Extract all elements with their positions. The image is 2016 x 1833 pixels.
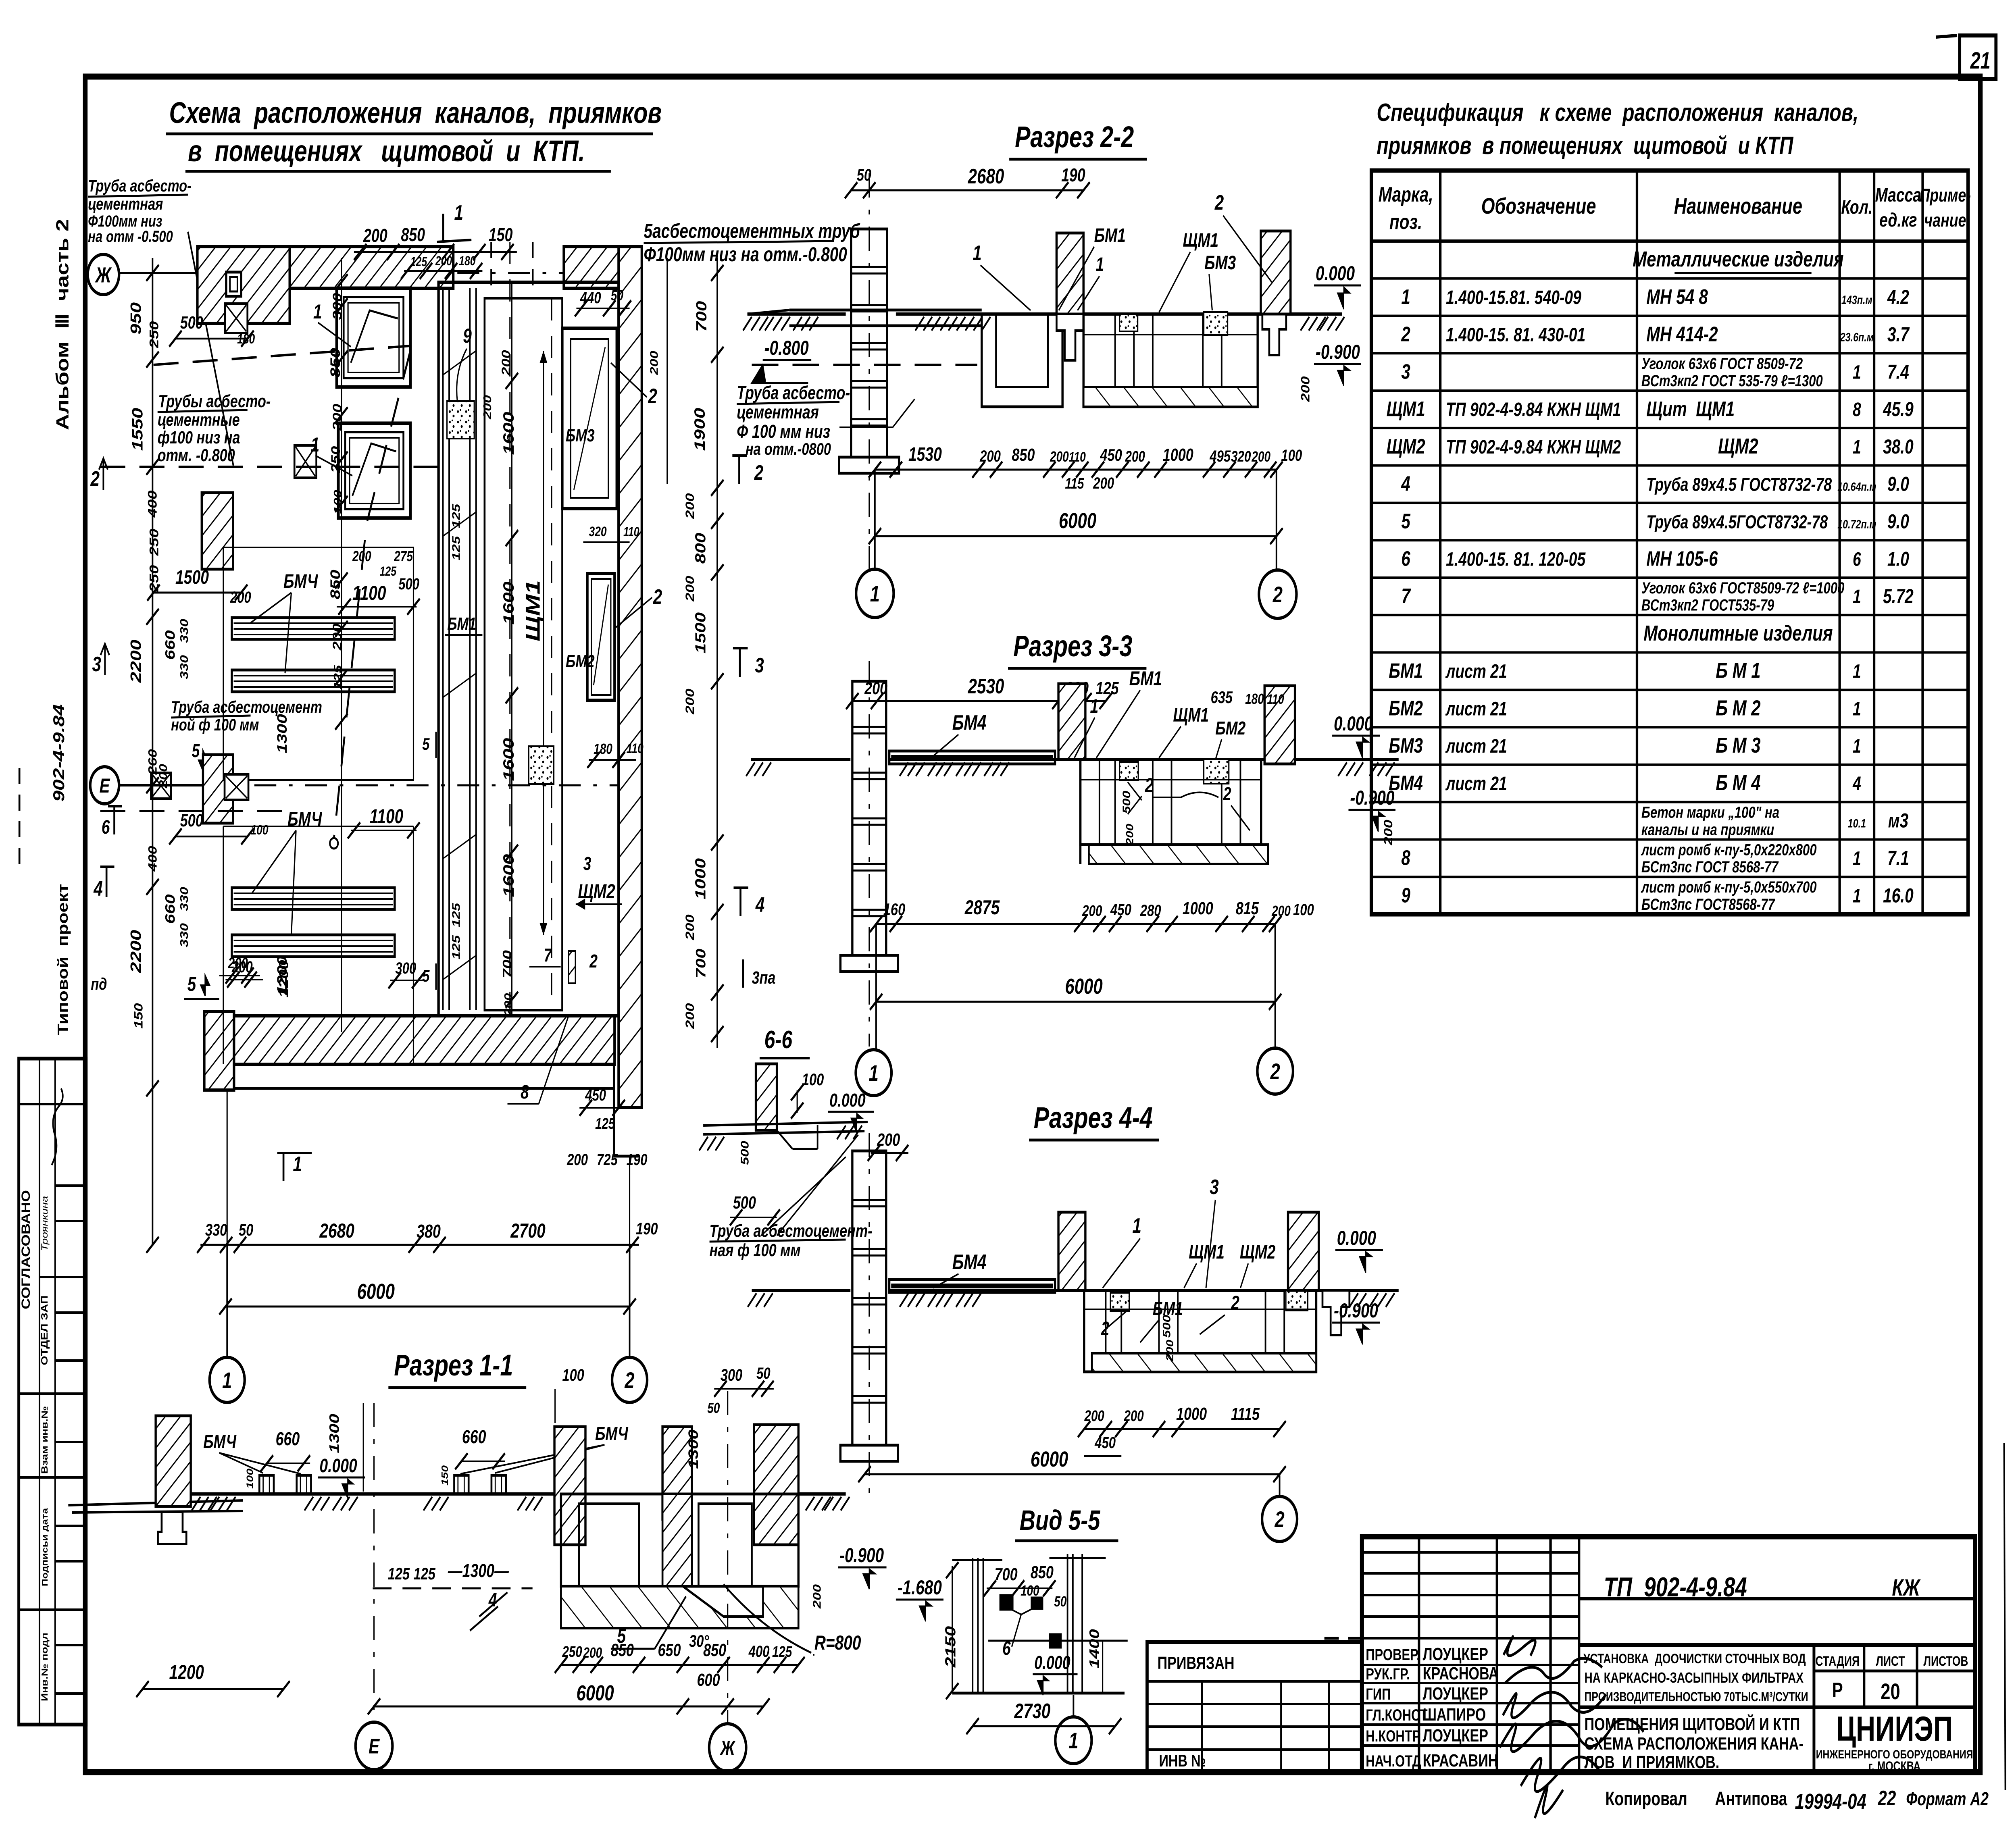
svg-text:ЛИСТ: ЛИСТ [1876,1654,1905,1669]
plan: left wall piers [202,493,233,569]
section 2-2 dim 6000 [875,535,1277,537]
svg-text:Кол.: Кол. [1841,197,1872,218]
svg-text:125: 125 [450,504,462,528]
svg-text:660: 660 [462,1427,486,1447]
svg-text:ТП 902-4-9.84: ТП 902-4-9.84 [1604,1572,1747,1602]
svg-text:450: 450 [585,1086,606,1104]
svg-text:5асбестоцементных труб: 5асбестоцементных труб [644,220,860,242]
svg-text:БМ4: БМ4 [952,711,987,734]
svg-text:Формат А2: Формат А2 [1906,1789,1989,1809]
svg-text:200: 200 [1165,1340,1176,1362]
section 4-4 pit [1084,1290,1316,1372]
svg-text:200: 200 [330,404,344,431]
svg-text:200: 200 [683,1003,697,1029]
plan: axis dash lines [204,272,636,274]
svg-text:0.000: 0.000 [1034,1652,1070,1673]
svg-text:125: 125 [1096,678,1119,698]
svg-text:500: 500 [739,1141,751,1165]
svg-text:850: 850 [703,1640,726,1660]
section 4-4 dim 6000 [864,1473,1279,1475]
svg-text:100: 100 [251,822,269,838]
svg-text:110: 110 [1267,692,1284,707]
svg-text:БМ2: БМ2 [1389,697,1423,720]
plan: BM4 channel bars [232,618,395,639]
svg-text:каналы и на приямки: каналы и на приямки [1641,821,1774,839]
svg-text:3: 3 [1210,1175,1219,1198]
svg-text:275: 275 [394,548,413,564]
plan: stamp square 2 [294,445,316,478]
view 5-5 drawing [972,1558,974,1693]
svg-text:200: 200 [1125,448,1145,465]
svg-text:20: 20 [1881,1679,1900,1704]
plan: bottom dim row 2 (6000) [225,1306,629,1308]
svg-text:Схема расположения каналов,: Схема расположения каналов, приямков [169,96,662,130]
svg-text:лист ромб к-пу-5,0х550х700: лист ромб к-пу-5,0х550х700 [1641,878,1816,896]
svg-text:2: 2 [1231,1292,1239,1314]
svg-text:250: 250 [147,565,161,593]
svg-text:1600: 1600 [500,412,517,455]
svg-text:0.000: 0.000 [1316,262,1355,285]
svg-text:1300: 1300 [327,1414,342,1453]
svg-text:БМ3: БМ3 [1204,252,1236,274]
svg-text:Ж: Ж [720,1737,736,1759]
svg-text:22: 22 [1878,1786,1896,1810]
svg-text:2680: 2680 [968,164,1004,188]
svg-text:Труба асбестоцемент: Труба асбестоцемент [171,697,322,716]
svg-text:200: 200 [683,576,697,602]
svg-text:ЩМ1: ЩМ1 [1173,705,1209,726]
plan: stamp square 1 [225,304,248,333]
svg-text:ф100 низ на: ф100 низ на [158,428,240,447]
svg-text:2: 2 [1101,1318,1110,1340]
section 4-4 left column [852,1151,886,1445]
svg-text:1: 1 [222,1368,232,1393]
svg-text:ЩМ2: ЩМ2 [1718,434,1758,458]
svg-text:БМЧ: БМЧ [283,571,319,593]
svg-text:3: 3 [755,653,764,677]
svg-text:400: 400 [146,491,160,518]
svg-text:200: 200 [1050,449,1069,465]
svg-text:КРАСНОВА: КРАСНОВА [1423,1664,1499,1683]
plan: right panels BM3 BM2 [562,328,616,509]
svg-text:6000: 6000 [576,1681,614,1705]
svg-text:м3: м3 [1888,809,1908,832]
svg-text:Труба 89х4.5 ГОСТ8732-78: Труба 89х4.5 ГОСТ8732-78 [1646,474,1832,495]
svg-text:280: 280 [1140,901,1161,920]
svg-text:700: 700 [694,301,710,332]
svg-text:Троянкина: Троянкина [40,1196,50,1251]
svg-text:2875: 2875 [964,896,1000,919]
section 4-4 right wall [1288,1212,1319,1290]
svg-text:200: 200 [1271,903,1291,919]
svg-text:1900: 1900 [691,408,708,451]
svg-text:ЦНИИЭП: ЦНИИЭП [1836,1710,1953,1748]
svg-text:600: 600 [697,1670,720,1690]
svg-text:6: 6 [1853,549,1862,570]
svg-text:Разрез 1-1: Разрез 1-1 [394,1349,513,1382]
left margin approval stamp boxes [19,1059,86,1725]
svg-text:БМ2: БМ2 [1215,718,1245,739]
svg-text:лист 21: лист 21 [1445,661,1507,682]
svg-text:-0.900: -0.900 [1316,341,1360,363]
svg-text:1115: 1115 [1231,1404,1260,1424]
svg-text:200: 200 [230,588,251,606]
svg-text:1530: 1530 [908,444,942,466]
svg-text:100: 100 [245,1469,255,1489]
svg-text:2530: 2530 [968,674,1004,698]
svg-text:110: 110 [627,741,644,756]
svg-text:450: 450 [1110,901,1131,919]
svg-text:ЩМ1: ЩМ1 [1183,230,1218,252]
svg-text:5: 5 [1401,510,1410,533]
section 1-1 pit [561,1494,798,1586]
svg-text:Б М 2: Б М 2 [1716,696,1760,720]
svg-text:БМ1: БМ1 [1389,659,1423,682]
svg-text:200: 200 [566,1151,588,1169]
svg-text:9.0: 9.0 [1887,473,1909,495]
svg-text:50: 50 [611,287,623,304]
view 5-5 squares [1000,1595,1013,1610]
svg-text:ная ф 100 мм: ная ф 100 мм [710,1240,801,1260]
svg-text:2700: 2700 [510,1219,545,1242]
svg-text:ЩМ1: ЩМ1 [1189,1242,1225,1263]
section 3-3 dim row [876,923,1275,925]
svg-text:190: 190 [1061,165,1085,185]
svg-text:635: 635 [1211,688,1233,707]
svg-text:6000: 6000 [1031,1447,1068,1471]
svg-text:МН 54 8: МН 54 8 [1646,285,1708,308]
svg-text:1300: 1300 [274,714,289,753]
svg-text:Труба асбесто-: Труба асбесто- [737,383,850,403]
svg-text:125: 125 [413,1564,435,1583]
svg-text:Наименование: Наименование [1674,193,1802,219]
svg-text:Разрез 4-4: Разрез 4-4 [1034,1101,1153,1135]
svg-text:50: 50 [1054,1594,1066,1610]
svg-text:1: 1 [869,1061,879,1086]
svg-text:400: 400 [748,1642,770,1660]
svg-text:2: 2 [1145,774,1154,797]
plan: right dim chain [716,258,719,1048]
svg-text:1: 1 [311,433,320,456]
svg-text:150: 150 [439,1465,450,1486]
svg-text:цементная: цементная [737,402,819,422]
svg-text:лист 21: лист 21 [1445,736,1507,757]
plan: stamp square 3 [151,773,171,799]
svg-text:поз.: поз. [1389,210,1422,233]
svg-text:чание: чание [1924,210,1966,231]
svg-text:150: 150 [489,225,513,245]
svg-text:45.9: 45.9 [1883,398,1914,421]
svg-text:ТП 902-4-9.84 КЖН ЩМ1: ТП 902-4-9.84 КЖН ЩМ1 [1446,399,1621,421]
svg-text:Масса: Масса [1875,185,1921,206]
plan: room outlines [223,547,414,780]
svg-text:125: 125 [388,1564,410,1583]
svg-text:8: 8 [521,1082,529,1103]
svg-text:Е: Е [369,1735,380,1758]
svg-text:ед.кг: ед.кг [1879,210,1917,231]
svg-text:850: 850 [401,225,425,245]
svg-text:ЛОУЦКЕР: ЛОУЦКЕР [1423,1726,1488,1746]
svg-text:330: 330 [205,1220,227,1239]
svg-text:0.000: 0.000 [829,1090,865,1111]
svg-text:815: 815 [1236,899,1259,918]
plan: diagonal dashed pipe [334,351,410,838]
svg-text:800: 800 [692,533,708,564]
svg-text:2: 2 [648,384,657,408]
svg-text:Ф 100 мм низ: Ф 100 мм низ [737,421,830,442]
section 3-3 left column [852,681,886,955]
svg-text:3: 3 [1401,360,1410,383]
svg-text:1400: 1400 [1087,1629,1102,1669]
svg-text:200: 200 [435,254,452,268]
svg-text:200: 200 [1252,449,1271,465]
svg-text:4: 4 [93,877,102,900]
svg-text:1: 1 [1401,285,1410,308]
svg-text:ЛОУЦКЕР: ЛОУЦКЕР [1423,1684,1488,1704]
svg-text:21: 21 [1970,48,1991,74]
svg-text:6: 6 [1401,547,1410,570]
svg-text:1.400-15.81. 540-09: 1.400-15.81. 540-09 [1446,287,1581,308]
svg-text:Разрез 3-3: Разрез 3-3 [1013,630,1132,663]
svg-text:Альбом Ⅲ часть 2: Альбом Ⅲ часть 2 [52,219,72,430]
svg-text:1: 1 [1068,1728,1078,1754]
table row 2 [1371,277,1968,280]
svg-text:9: 9 [1401,883,1410,907]
table row 10 [1371,576,1968,579]
section 4-4 BM4 slab [889,1280,1055,1292]
plan: shield box 2 [338,423,410,518]
svg-text:БМ1: БМ1 [1129,667,1162,690]
svg-text:200: 200 [481,395,494,420]
svg-text:Б М 1: Б М 1 [1716,659,1760,683]
title block [1362,1537,1975,1772]
svg-text:143п.м: 143п.м [1841,293,1872,307]
svg-text:7.4: 7.4 [1887,361,1909,383]
svg-text:125: 125 [380,564,397,579]
svg-text:Копировал: Копировал [1606,1788,1687,1810]
svg-text:660: 660 [162,894,178,924]
svg-text:160: 160 [883,900,906,919]
svg-text:Антипова: Антипова [1715,1788,1787,1810]
svg-text:-0.900: -0.900 [1334,1299,1378,1322]
svg-text:1200: 1200 [276,960,291,998]
svg-text:Уголок 63х6 ГОСТ 8509-72: Уголок 63х6 ГОСТ 8509-72 [1641,355,1803,373]
section 1-1 left slab [68,1500,243,1505]
plan: hatch patches [447,401,475,439]
svg-text:Труба асбесто-: Труба асбесто- [88,176,192,195]
svg-text:10.72п.м: 10.72п.м [1837,518,1876,531]
svg-text:1300: 1300 [686,1429,701,1469]
svg-text:Приме-: Приме- [1920,185,1971,206]
svg-text:Р: Р [1832,1678,1843,1702]
svg-text:6-6: 6-6 [764,1026,793,1053]
svg-text:125: 125 [772,1643,792,1660]
svg-text:БМ3: БМ3 [1389,734,1423,757]
svg-text:250: 250 [147,529,161,556]
svg-text:1: 1 [454,201,463,224]
table row 15 [1371,764,1968,766]
svg-text:КРАСАВИН: КРАСАВИН [1423,1751,1498,1771]
table row 4 [1371,352,1968,354]
svg-text:БМЧ: БМЧ [595,1423,628,1444]
plan: leader from note [188,232,233,466]
svg-text:1500: 1500 [175,567,209,589]
svg-text:6000: 6000 [1065,974,1102,999]
svg-text:1: 1 [1853,736,1861,757]
svg-text:500: 500 [180,313,203,333]
svg-text:Е: Е [100,774,110,797]
svg-text:R=800: R=800 [814,1631,861,1654]
svg-text:Щит ЩМ1: Щит ЩМ1 [1646,397,1735,420]
svg-text:250: 250 [147,321,161,349]
section 2-2 left pit [982,314,1062,407]
svg-text:250: 250 [562,1643,582,1660]
svg-text:3: 3 [583,853,591,874]
svg-text:ЩМ2: ЩМ2 [1240,1242,1276,1263]
view 5-5 axis circle 1 [1073,1695,1075,1716]
svg-text:500: 500 [733,1193,756,1213]
svg-text:ШАПИРО: ШАПИРО [1423,1705,1486,1725]
svg-text:1: 1 [1096,254,1104,276]
svg-text:Труба асбестоцемент-: Труба асбестоцемент- [710,1221,873,1241]
section 3-3 ground line [751,758,850,761]
svg-text:100: 100 [1281,446,1302,464]
svg-text:200: 200 [683,689,697,715]
svg-text:38.0: 38.0 [1883,435,1914,458]
svg-text:7.1: 7.1 [1887,847,1909,870]
svg-text:ПРОВЕР.: ПРОВЕР. [1366,1646,1420,1664]
svg-text:125: 125 [450,935,462,959]
plan: window square [226,272,241,296]
svg-text:500: 500 [1121,791,1133,814]
svg-text:ИНВ №: ИНВ № [1159,1751,1206,1770]
svg-text:-0.900: -0.900 [839,1544,884,1567]
table row 7 [1371,464,1968,467]
section 1-1 left pier [156,1416,191,1506]
svg-text:5: 5 [192,741,200,761]
svg-text:6: 6 [102,817,110,838]
svg-text:2: 2 [1275,1507,1285,1532]
plan: inner dim chain left of channel [341,258,342,1032]
plan: inner dim chain in shaft [511,282,512,1016]
svg-text:125: 125 [450,536,462,560]
svg-text:Вид 5-5: Вид 5-5 [1020,1504,1101,1536]
plan: stamp square 4 [225,774,248,800]
svg-text:ЛИСТОВ: ЛИСТОВ [1923,1654,1968,1669]
svg-text:8: 8 [1853,399,1861,421]
table row 17 [1371,838,1968,841]
section 3-3 BM4 slab [889,751,1055,764]
svg-text:1600: 1600 [500,738,517,781]
svg-text:902-4-9.84: 902-4-9.84 [50,704,68,802]
plan: BM1 strip joints [443,351,476,375]
svg-text:180: 180 [237,331,255,347]
svg-text:1: 1 [293,1152,302,1176]
svg-text:4: 4 [755,893,764,916]
svg-text:110: 110 [623,525,639,539]
svg-text:1600: 1600 [500,582,517,625]
svg-text:ЩМ1: ЩМ1 [1387,397,1425,420]
page number box 21 [1960,35,1996,79]
svg-text:Ф100мм низ на отм.-0.800: Ф100мм низ на отм.-0.800 [644,243,847,266]
svg-text:200: 200 [583,1645,602,1661]
svg-text:5: 5 [422,734,430,753]
svg-text:330: 330 [178,887,190,911]
svg-text:6000: 6000 [357,1280,395,1304]
svg-text:650: 650 [658,1640,681,1660]
svg-text:1: 1 [1853,698,1861,720]
svg-text:19994-04: 19994-04 [1795,1789,1866,1814]
svg-text:4: 4 [1852,773,1861,795]
svg-text:1: 1 [1853,362,1861,383]
section 3-3 middle wall [1058,684,1085,759]
svg-text:БМ1: БМ1 [1094,225,1126,247]
svg-text:СОГЛАСОВАНО: СОГЛАСОВАНО [19,1190,33,1309]
svg-text:2: 2 [653,585,662,608]
svg-text:100: 100 [562,1365,584,1384]
svg-text:495: 495 [1209,447,1231,465]
svg-text:125: 125 [410,255,427,269]
plan: left dim chain [152,258,154,1246]
svg-text:в помещениях щитовой и КТ: в помещениях щитовой и КТП. [188,135,585,168]
svg-text:125: 125 [450,903,462,927]
plan: central shaft outer [439,282,619,1016]
section 4-4 ground line [752,1289,851,1292]
table row 3 [1371,315,1968,317]
svg-text:1100: 1100 [370,805,404,828]
signatures [1500,1637,1644,1818]
svg-text:приямков в помещениях щитово: приямков в помещениях щитовой и КТП [1377,131,1793,159]
svg-text:—1300—: —1300— [448,1560,509,1581]
svg-text:8: 8 [1401,846,1410,870]
svg-text:700: 700 [995,1565,1018,1584]
svg-text:5: 5 [422,966,430,985]
section 1-1 axis circles E Zh [373,1403,375,1722]
svg-text:-0.900: -0.900 [1350,786,1394,809]
svg-text:200: 200 [1299,376,1312,402]
svg-text:200: 200 [1382,820,1395,846]
svg-text:2680: 2680 [319,1219,354,1242]
svg-text:МН 414-2: МН 414-2 [1646,322,1718,346]
svg-text:23.6п.м: 23.6п.м [1840,331,1874,344]
svg-text:ВСт3кп2 ГОСТ535-79: ВСт3кп2 ГОСТ535-79 [1641,596,1774,614]
section 2-2 T drop [1056,314,1083,360]
svg-text:200: 200 [1082,902,1102,919]
svg-text:380: 380 [417,1221,441,1242]
svg-text:450: 450 [1094,1434,1116,1452]
section 2-2 ground line [748,312,846,316]
svg-text:Марка,: Марка, [1379,183,1433,206]
svg-text:пд: пд [91,974,107,993]
section 2-2 middle wall [1056,233,1083,314]
svg-text:0.000: 0.000 [1337,1227,1376,1249]
section 1-1 dim 6000 [374,1706,728,1708]
svg-text:1: 1 [973,241,981,264]
svg-text:КЖ: КЖ [1892,1575,1921,1601]
svg-text:1: 1 [1853,661,1861,682]
section 1-1 ground [191,1492,561,1496]
svg-text:1200: 1200 [169,1661,204,1683]
svg-text:лист ромб к-пу-5,0х220х800: лист ромб к-пу-5,0х220х800 [1641,841,1816,859]
svg-text:5: 5 [187,973,197,995]
svg-text:320: 320 [589,524,607,539]
svg-text:3.7: 3.7 [1887,323,1910,346]
svg-text:г. МОСКВА: г. МОСКВА [1868,1759,1920,1774]
table row 6 [1371,427,1968,429]
svg-text:110: 110 [1069,449,1086,465]
svg-text:50: 50 [239,1220,253,1239]
svg-text:ЩМ1: ЩМ1 [522,580,544,641]
